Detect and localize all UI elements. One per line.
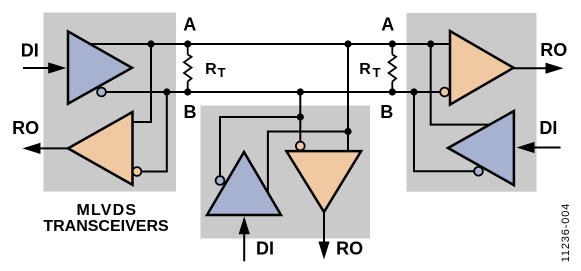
- wire RO output middle: [323, 212, 325, 243]
- arrowhead RO right: [546, 63, 564, 74]
- svg-text:A: A: [381, 15, 394, 35]
- receiver U4 (middle, peach, down): [286, 151, 361, 212]
- node right B junction: [410, 88, 417, 95]
- wire DI input right: [534, 147, 561, 149]
- arrowhead RO middle: [318, 242, 329, 260]
- receiver U5 (right, peach): [450, 31, 514, 105]
- node RT2 top: [389, 40, 396, 47]
- svg-text:DI: DI: [21, 41, 39, 61]
- wire bus line A: [90, 43, 450, 45]
- wire bus line B: [106, 91, 440, 93]
- node junction A-left: [147, 40, 154, 47]
- arrowhead RO left: [23, 143, 41, 154]
- arrowhead DI middle: [239, 216, 250, 234]
- svg-text:DI: DI: [256, 239, 274, 259]
- svg-text:B: B: [380, 102, 393, 122]
- wire DI input left: [23, 67, 50, 69]
- svg-text:R: R: [359, 61, 371, 78]
- svg-text:R: R: [205, 61, 217, 78]
- wire RO output left: [39, 147, 68, 149]
- wire right B junction to driver inverted out: [414, 92, 474, 171]
- svg-text:RO: RO: [12, 118, 39, 138]
- resistor RT1 leads: [187, 44, 189, 55]
- driver U6 (right, blue): [448, 111, 514, 185]
- driver U3 (middle, blue, up): [207, 152, 281, 215]
- wire A junction down to receiver left: [133, 44, 152, 122]
- svg-text:RO: RO: [540, 40, 567, 60]
- driver U1 (left, blue): [68, 31, 132, 103]
- bubble U1 inverted output: [97, 88, 106, 97]
- node middle B branch: [297, 113, 304, 120]
- transceiver block right (gray): [407, 13, 537, 192]
- node RT1 top: [184, 40, 191, 47]
- wire right A junction to driver noninv out: [431, 44, 490, 125]
- wire middle driver noninv out to A: [268, 132, 348, 193]
- transceiver block middle (gray): [201, 106, 371, 239]
- node right A junction: [427, 40, 434, 47]
- receiver U2 (left, peach): [68, 112, 133, 185]
- resistor RT1 zigzag: [184, 55, 192, 82]
- resistor RT2 leads: [391, 44, 393, 55]
- svg-text:RO: RO: [336, 239, 363, 259]
- wire DI input middle: [243, 233, 245, 261]
- wire middle driver inverted out to B: [220, 117, 300, 176]
- node RT1 bottom: [184, 88, 191, 95]
- node junction B-left: [163, 88, 170, 95]
- bubble U2 inverting input: [133, 167, 142, 176]
- svg-text:DI: DI: [539, 118, 557, 138]
- wire RO output right: [514, 67, 548, 69]
- node middle A branch: [344, 128, 351, 135]
- resistor RT2 zigzag: [389, 55, 397, 82]
- svg-text:11236-004: 11236-004: [560, 203, 572, 262]
- svg-text:B: B: [184, 102, 197, 122]
- svg-text:T: T: [373, 65, 381, 80]
- svg-text:A: A: [183, 15, 196, 35]
- svg-text:TRANSCEIVERS: TRANSCEIVERS: [43, 218, 169, 235]
- node middle A tap: [344, 40, 351, 47]
- svg-text:T: T: [218, 65, 226, 80]
- wire middle A tap: [347, 44, 349, 151]
- svg-text:MLVDS: MLVDS: [76, 202, 137, 219]
- bubble U4 inverting input: [296, 142, 305, 151]
- node middle B tap: [297, 88, 304, 95]
- bubble U3 inverted output: [216, 176, 225, 185]
- wire U2 bubble to line B: [141, 92, 166, 172]
- bubble U6 inverted output: [474, 167, 483, 176]
- node RT2 bottom: [389, 88, 396, 95]
- wire middle B tap: [299, 92, 301, 142]
- arrowhead DI right: [517, 142, 535, 153]
- bubble U5 inverting input: [440, 88, 449, 97]
- transceiver block left (gray): [44, 13, 177, 192]
- arrowhead DI left: [48, 62, 66, 73]
